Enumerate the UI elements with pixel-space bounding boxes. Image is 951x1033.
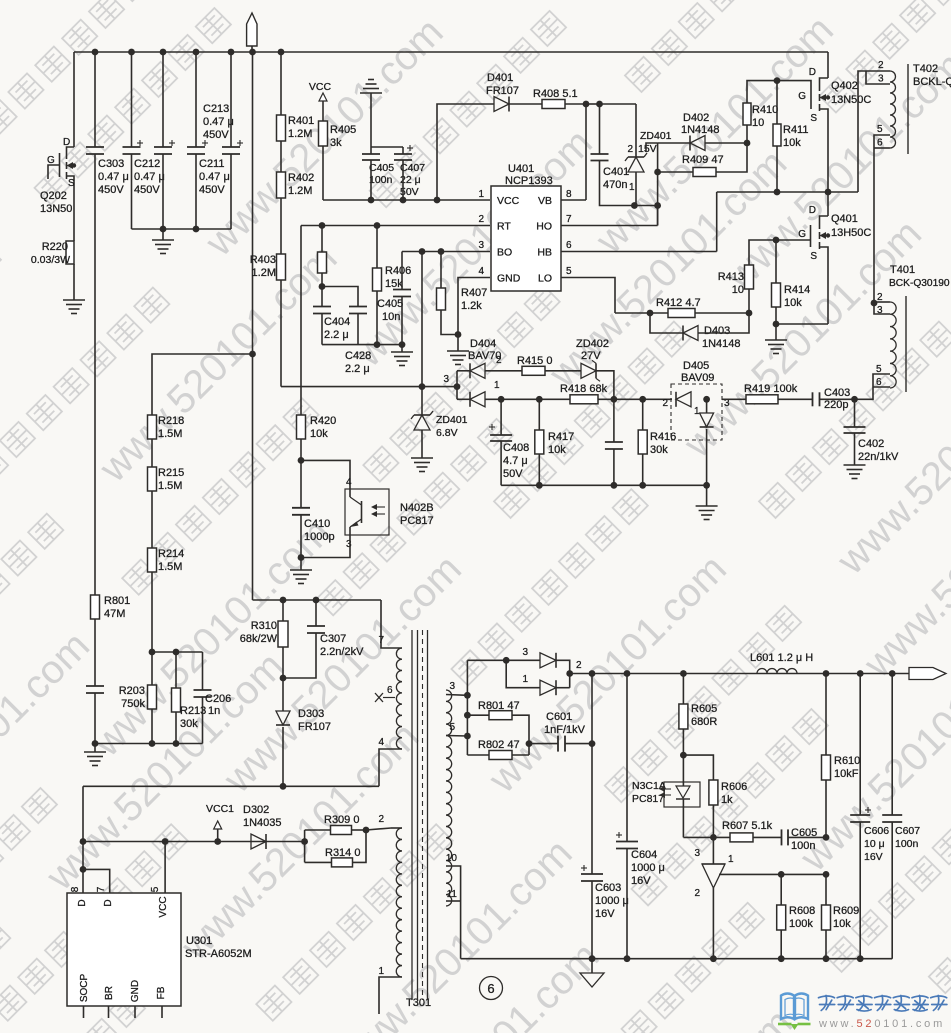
svg-text:C401: C401 bbox=[603, 166, 629, 178]
wire to gnd bbox=[300, 558, 302, 571]
svg-text:R410: R410 bbox=[752, 104, 778, 116]
capacitor C403 220p bbox=[812, 392, 814, 406]
svg-text:VCC1: VCC1 bbox=[206, 803, 234, 815]
node rail/Dpin line bbox=[80, 838, 87, 845]
optocoupler N3C1A PC817 (LED side) bbox=[664, 782, 700, 807]
node rail/C607 bbox=[889, 670, 896, 677]
svg-text:2.2 μ: 2.2 μ bbox=[345, 363, 370, 375]
wire R220-gnd bbox=[73, 264, 75, 300]
node R404 bottom bbox=[321, 273, 323, 287]
wire cap-rail bbox=[613, 449, 615, 485]
inverted ground above C405 bbox=[360, 92, 382, 94]
wire C605 right bbox=[788, 836, 826, 838]
svg-text:RT: RT bbox=[497, 221, 511, 233]
diode D405 lower bbox=[706, 399, 708, 413]
output connector arrow bbox=[909, 668, 946, 680]
node VCC/bootstrap bbox=[434, 197, 441, 204]
svg-text:C303: C303 bbox=[98, 158, 124, 170]
wire R607-C605 bbox=[753, 836, 782, 838]
svg-text:100k: 100k bbox=[789, 918, 813, 930]
svg-text:R309 0: R309 0 bbox=[324, 814, 359, 826]
resistor R214 1.5M bbox=[148, 548, 157, 572]
svg-text:2: 2 bbox=[627, 144, 633, 155]
ground sense rail bbox=[706, 485, 708, 506]
svg-text:D403: D403 bbox=[704, 325, 730, 337]
wire sec pin3 bus bbox=[466, 660, 468, 755]
wire sense out bbox=[722, 398, 746, 400]
svg-text:2: 2 bbox=[378, 814, 384, 825]
watermark diagonal line x+y=1560 bbox=[352, 0, 951, 1033]
svg-text:7: 7 bbox=[566, 214, 572, 225]
wire GND pin4 bbox=[458, 278, 490, 352]
svg-text:0.47 μ: 0.47 μ bbox=[98, 171, 129, 183]
node fb/R606 bbox=[710, 834, 717, 841]
wire output drop bbox=[591, 674, 593, 875]
resistor R314 0 bbox=[305, 861, 332, 863]
wire R405-VCC rail bbox=[322, 146, 324, 200]
node sense/D404 bbox=[454, 383, 461, 390]
op-amp U401 NCP1393 controller bbox=[491, 186, 561, 291]
wire sec pin5 stub bbox=[446, 735, 467, 738]
node gate drive bbox=[744, 140, 751, 147]
resistor R215 1.5M bbox=[148, 467, 157, 491]
svg-text:15k: 15k bbox=[385, 278, 403, 290]
svg-text:1N4035: 1N4035 bbox=[243, 817, 282, 829]
svg-text:C307: C307 bbox=[320, 633, 346, 645]
capacitor C408 4.7u 50V bbox=[500, 399, 502, 435]
svg-text:C604: C604 bbox=[631, 849, 657, 861]
svg-text:U401: U401 bbox=[508, 163, 534, 175]
node gndrail/TL431 bbox=[710, 955, 717, 962]
wire R416-rail bbox=[642, 454, 644, 485]
diode D402 1N4148 bbox=[658, 142, 690, 144]
wire T401 return bbox=[855, 387, 874, 399]
svg-text:R407: R407 bbox=[461, 287, 487, 299]
wire T301 pin7 feed bbox=[381, 600, 402, 648]
wire diode feed lower bbox=[506, 660, 540, 687]
resistor R418 68k bbox=[570, 395, 598, 404]
transformer T402 BCKL-Q30190 primary bbox=[890, 71, 896, 148]
node D303/rail bbox=[280, 783, 287, 790]
node D405 mid bbox=[703, 396, 710, 403]
svg-text:R220: R220 bbox=[42, 241, 68, 253]
resistor R203 750k bbox=[151, 652, 153, 685]
diode D601a bbox=[540, 653, 556, 668]
wire R801-cap bbox=[94, 619, 96, 686]
wire BO pin3 bbox=[402, 251, 490, 253]
svg-text:1k: 1k bbox=[721, 794, 733, 806]
logo chinese characters bbox=[819, 996, 835, 1011]
svg-text:10: 10 bbox=[732, 284, 744, 296]
svg-text:R420: R420 bbox=[310, 415, 336, 427]
wire VCC1 stub bbox=[217, 829, 219, 842]
svg-text:Q401: Q401 bbox=[831, 213, 858, 225]
wire T301 pin1 bbox=[379, 977, 402, 1014]
svg-text:11: 11 bbox=[447, 889, 458, 900]
wire C410 bottom bbox=[300, 515, 302, 558]
wire ZD402-corner bbox=[596, 371, 614, 401]
wire C405b bottom bbox=[401, 297, 403, 345]
resistor R413 10 bbox=[748, 289, 750, 313]
resistor R213 30k bbox=[175, 652, 177, 688]
svg-text:8: 8 bbox=[70, 886, 81, 892]
watermark diagonal line x+y=140 bbox=[0, 0, 951, 419]
svg-text:1: 1 bbox=[728, 854, 734, 865]
svg-text:BR: BR bbox=[104, 986, 115, 1000]
svg-text:BO: BO bbox=[497, 247, 512, 259]
wire R408-VB node bbox=[565, 103, 586, 105]
wire HB pin6 bbox=[561, 251, 717, 253]
node R417 bbox=[536, 396, 543, 403]
wire R218 feed bbox=[152, 354, 253, 415]
wire sec pin3 stub bbox=[446, 694, 467, 697]
svg-text:1.5M: 1.5M bbox=[158, 480, 182, 492]
svg-text:16V: 16V bbox=[631, 875, 651, 887]
wire R607 feed bbox=[713, 836, 730, 838]
svg-text:1.5M: 1.5M bbox=[158, 428, 182, 440]
svg-text:R606: R606 bbox=[721, 781, 747, 793]
svg-text:VCC: VCC bbox=[497, 195, 520, 207]
wire VCC1 line bbox=[83, 841, 305, 843]
node pin3 bbox=[464, 692, 471, 699]
ground below R220 bbox=[63, 299, 85, 301]
node HV/R218 feed bbox=[249, 351, 256, 358]
svg-text:5: 5 bbox=[566, 266, 572, 277]
resistor R404 (unlabeled) bbox=[321, 226, 323, 253]
svg-text:R405: R405 bbox=[330, 124, 356, 136]
svg-text:R408 5.1: R408 5.1 bbox=[533, 88, 578, 100]
wire C604-gndrail bbox=[626, 849, 628, 959]
resistor R407 1.2k bbox=[440, 252, 442, 289]
capacitor C605 100n bbox=[781, 829, 783, 845]
resistor R405 3k bbox=[319, 121, 328, 146]
wire T401 pin5 stub bbox=[873, 374, 890, 387]
node C605/R610 bbox=[823, 834, 830, 841]
node ref/R608 bbox=[778, 871, 785, 878]
capacitor C213 0.47u 450V bbox=[228, 49, 235, 56]
optocoupler N402B PC817 (transistor side) bbox=[345, 489, 389, 535]
svg-text:1: 1 bbox=[494, 380, 500, 391]
wire R214-node bbox=[151, 572, 153, 652]
svg-text:3: 3 bbox=[449, 681, 455, 692]
wire LED bottom bbox=[682, 807, 684, 837]
svg-text:13N50: 13N50 bbox=[40, 203, 72, 215]
wire R314 right bbox=[353, 830, 367, 862]
svg-text:D302: D302 bbox=[243, 804, 269, 816]
wire sense gnd rail bbox=[501, 484, 706, 486]
svg-text:R218: R218 bbox=[158, 415, 184, 427]
watermark diagonal line x+y=480 bbox=[0, 0, 951, 768]
node rail/C604 bbox=[624, 670, 631, 677]
svg-text:2.2 μ: 2.2 μ bbox=[324, 329, 349, 341]
node VB riser bbox=[583, 101, 590, 108]
svg-text:3: 3 bbox=[443, 374, 449, 385]
node R801 left bbox=[464, 712, 471, 719]
wire sec pin10 stub bbox=[446, 866, 461, 901]
capacitor C604 1000u 16V bbox=[616, 841, 638, 843]
node sense/ZD bbox=[419, 383, 426, 390]
wire LO pin5 bbox=[561, 278, 615, 314]
svg-text:R403: R403 bbox=[250, 254, 276, 266]
watermark diagonal line x+y=262 bbox=[0, 0, 951, 488]
diode D302 1N4035 bbox=[251, 834, 266, 849]
node R310 top bbox=[280, 597, 287, 604]
svg-text:16V: 16V bbox=[864, 851, 883, 863]
svg-text:10kF: 10kF bbox=[834, 768, 859, 780]
svg-text:C213: C213 bbox=[203, 103, 229, 115]
svg-text:4.7 μ: 4.7 μ bbox=[503, 455, 528, 467]
diode D403 1N4148 bbox=[650, 313, 683, 333]
svg-text:R608: R608 bbox=[789, 905, 815, 917]
wire R605 bottom bbox=[682, 729, 684, 755]
resistor R401 1.2M bbox=[277, 115, 286, 141]
T402 core bbox=[907, 64, 909, 154]
node R310/C307 bbox=[280, 675, 287, 682]
capacitor C303 0.47u 450V bbox=[92, 49, 99, 56]
svg-text:1: 1 bbox=[629, 182, 635, 193]
node rail/R605 bbox=[680, 670, 687, 677]
svg-text:C606: C606 bbox=[864, 825, 889, 837]
svg-text:R609: R609 bbox=[833, 905, 859, 917]
svg-text:BCK-Q30190: BCK-Q30190 bbox=[889, 278, 950, 289]
svg-text:C607: C607 bbox=[895, 825, 920, 837]
diode D404 BAV70 upper bbox=[457, 370, 470, 372]
wire switch node rail bbox=[717, 191, 858, 193]
wire D404 bracket bbox=[456, 371, 458, 400]
wire C604 drop bbox=[626, 674, 628, 842]
resistor R419 100k bbox=[746, 395, 778, 404]
svg-text:1: 1 bbox=[478, 189, 484, 200]
svg-text:6: 6 bbox=[387, 685, 393, 696]
node D302/R309 bbox=[301, 838, 308, 845]
ground Q401 source bbox=[765, 339, 787, 341]
node R406 bottom bbox=[374, 341, 381, 348]
watermark diagonal line x+y=1820 bbox=[546, 0, 951, 1033]
capacitor C206 1n bbox=[202, 652, 204, 690]
svg-text:R416: R416 bbox=[650, 431, 676, 443]
wire lower gnd rail bbox=[95, 743, 203, 745]
wire R609 bottom bbox=[825, 930, 827, 959]
wire R412 right bbox=[695, 312, 749, 314]
svg-text:13H50C: 13H50C bbox=[831, 227, 871, 239]
wire R309 right bbox=[352, 829, 367, 831]
wire BO sense line bbox=[281, 386, 457, 388]
svg-text:C212: C212 bbox=[134, 158, 160, 170]
wire sec pin11 stub bbox=[446, 900, 461, 902]
resistor R801 47 bbox=[467, 714, 489, 716]
wire VB riser bbox=[585, 104, 587, 200]
wire C403-node bbox=[820, 398, 855, 400]
svg-text:10: 10 bbox=[752, 117, 764, 129]
svg-text:C603: C603 bbox=[595, 882, 621, 894]
resistor R420 10k bbox=[297, 415, 306, 439]
transistor Q402 13N50C bbox=[820, 78, 829, 83]
wire R610 bottom bbox=[825, 780, 827, 837]
node R409 tap bbox=[654, 169, 661, 176]
node C401 top bbox=[596, 101, 603, 108]
svg-text:R801 47: R801 47 bbox=[478, 700, 520, 712]
svg-text:G: G bbox=[47, 155, 55, 166]
inductor L601 1.2uH bbox=[757, 669, 797, 674]
wire d601a out bbox=[557, 660, 570, 687]
svg-text:R418 68k: R418 68k bbox=[560, 383, 608, 395]
wire opto emitter bbox=[301, 535, 350, 558]
wire R401-R402 bbox=[280, 141, 282, 172]
svg-text:R605: R605 bbox=[691, 703, 717, 715]
svg-text:N3C1A: N3C1A bbox=[632, 780, 666, 792]
svg-text:1: 1 bbox=[522, 674, 528, 685]
node R414 bottom bbox=[775, 307, 777, 324]
node rail/R610 bbox=[823, 670, 830, 677]
resistor R608 100k bbox=[780, 874, 782, 905]
svg-text:FB: FB bbox=[156, 986, 167, 999]
wire pin7 bracket bbox=[83, 869, 110, 893]
wire R420 bottom bbox=[300, 439, 302, 460]
node gndrail/R608 bbox=[778, 955, 785, 962]
resistor R309 0 bbox=[305, 829, 331, 831]
wire HV drop from J1 node bbox=[252, 52, 254, 600]
svg-text:D404: D404 bbox=[470, 338, 496, 350]
pin 6 tap X mark bbox=[375, 693, 383, 702]
wire R417-rail bbox=[538, 454, 540, 485]
svg-text:ZD401: ZD401 bbox=[436, 414, 468, 426]
node bus/J1 bbox=[249, 49, 256, 56]
wire C606 bottom bbox=[859, 822, 861, 959]
opto light arrows bbox=[372, 506, 385, 508]
wire R310 bottom bbox=[282, 647, 284, 678]
wire HO riser to D402 bbox=[657, 143, 659, 226]
svg-text:220p: 220p bbox=[824, 399, 848, 411]
svg-text:100n: 100n bbox=[895, 838, 919, 850]
svg-text:Q202: Q202 bbox=[40, 190, 67, 202]
svg-text:D: D bbox=[809, 67, 816, 78]
wire T402 pin3 stub bbox=[866, 71, 890, 84]
svg-text:10k: 10k bbox=[784, 297, 802, 309]
resistor R802 47 bbox=[467, 754, 489, 756]
wire to T301 pin2 bbox=[366, 828, 391, 830]
svg-text:1: 1 bbox=[378, 966, 384, 977]
svg-text:C408: C408 bbox=[503, 442, 529, 454]
capacitor C801 (unlabeled) bbox=[86, 685, 104, 687]
wire R411 bottom bbox=[776, 146, 778, 192]
svg-text:C403: C403 bbox=[824, 387, 850, 399]
svg-text:50V: 50V bbox=[503, 468, 523, 480]
svg-text:3: 3 bbox=[478, 240, 484, 251]
wire T301 pin2 bbox=[391, 827, 402, 829]
svg-text:10k: 10k bbox=[833, 918, 851, 930]
svg-text:R310: R310 bbox=[251, 620, 277, 632]
resistor R402 1.2M bbox=[277, 172, 286, 198]
svg-text:1n: 1n bbox=[208, 705, 220, 717]
capacitor C307 2.2n/2kV bbox=[315, 600, 317, 626]
svg-text:T401: T401 bbox=[890, 264, 915, 276]
wire to C601 bbox=[529, 743, 558, 745]
node C601/output drop bbox=[589, 740, 596, 747]
capacitor C601 1nF/1kV bbox=[557, 736, 559, 752]
wire D401-R408 bbox=[509, 103, 542, 105]
svg-text:10k: 10k bbox=[310, 428, 328, 440]
wire fb line bbox=[683, 836, 713, 838]
node BO/ZD bbox=[419, 248, 426, 255]
svg-text:47M: 47M bbox=[104, 608, 125, 620]
svg-text:10n: 10n bbox=[382, 311, 400, 323]
svg-text:1000p: 1000p bbox=[304, 531, 335, 543]
wire sense line bbox=[485, 398, 672, 400]
node BO/R407 bbox=[438, 248, 445, 255]
wire bus-R401 bbox=[280, 52, 282, 115]
wire T402 to T401 link bbox=[873, 148, 875, 302]
wire rail down left bbox=[82, 786, 84, 893]
svg-text:ZD402: ZD402 bbox=[576, 338, 609, 350]
capacitor C404 2.2u bbox=[321, 287, 323, 307]
svg-text:G: G bbox=[798, 229, 806, 240]
T301 core bbox=[411, 630, 413, 1000]
wire R203-gnd rail bbox=[151, 709, 153, 744]
connector J1 (AC input arrow) bbox=[247, 13, 257, 46]
wire T402 pin5 stub bbox=[874, 135, 890, 148]
svg-text:NCP1393: NCP1393 bbox=[505, 175, 553, 187]
wire top HV bus bbox=[74, 51, 828, 53]
transformer T301 secondary winding bbox=[446, 690, 452, 906]
node C408 bbox=[498, 396, 505, 403]
svg-text:10k: 10k bbox=[783, 137, 801, 149]
svg-text:D: D bbox=[77, 899, 88, 906]
svg-text:G: G bbox=[798, 91, 806, 102]
svg-text:R610: R610 bbox=[834, 755, 860, 767]
svg-text:1.2k: 1.2k bbox=[461, 300, 482, 312]
wire RT pin2 bbox=[301, 225, 490, 227]
wire C206-gnd rail bbox=[202, 697, 204, 744]
wire T401 pin2 stub bbox=[874, 301, 890, 303]
resistor R414 10k bbox=[775, 240, 777, 283]
wire to C401 bbox=[586, 103, 600, 105]
wire U301 top rail bbox=[83, 785, 379, 787]
node HO junction bbox=[654, 202, 661, 209]
node rail/R411 bbox=[774, 189, 781, 196]
capacitor C606 10u 16V bbox=[859, 674, 861, 816]
node VCC pin5 drop bbox=[162, 838, 169, 845]
IC U301 STR-A6052M bbox=[67, 893, 181, 1006]
svg-text:100n: 100n bbox=[791, 840, 815, 852]
wire Q401 gate line bbox=[776, 239, 811, 241]
wire C303 down to R801 bbox=[94, 154, 96, 595]
node R605/R606 bbox=[680, 752, 687, 759]
wire C401 bottom bbox=[600, 161, 658, 206]
svg-text:R419 100k: R419 100k bbox=[744, 383, 798, 395]
svg-text:C404: C404 bbox=[324, 316, 350, 328]
wire R415-ZD402 bbox=[545, 370, 581, 372]
svg-text:FR107: FR107 bbox=[298, 721, 331, 733]
svg-text:C402: C402 bbox=[858, 438, 884, 450]
svg-text:6.8V: 6.8V bbox=[436, 427, 458, 439]
wire C401 top bbox=[600, 103, 637, 105]
svg-text:R411: R411 bbox=[783, 124, 808, 136]
node R213 top bbox=[173, 649, 180, 656]
svg-text:R412 4.7: R412 4.7 bbox=[656, 297, 701, 309]
wire gnd-captops bbox=[370, 93, 372, 147]
svg-text:4: 4 bbox=[478, 266, 484, 277]
node gndrail/R609 bbox=[823, 955, 830, 962]
wire R414-gnd bbox=[775, 324, 777, 340]
ground below cap tie rail bbox=[162, 229, 164, 240]
svg-text:R401: R401 bbox=[288, 115, 314, 127]
svg-text:L601 1.2 μ H: L601 1.2 μ H bbox=[750, 652, 813, 664]
wire C603-gndrail bbox=[591, 881, 593, 959]
opto arrows bbox=[660, 788, 671, 790]
svg-text:6: 6 bbox=[876, 377, 882, 388]
node link/T401 pin2 bbox=[871, 300, 878, 307]
page number 6 bbox=[480, 977, 503, 1000]
